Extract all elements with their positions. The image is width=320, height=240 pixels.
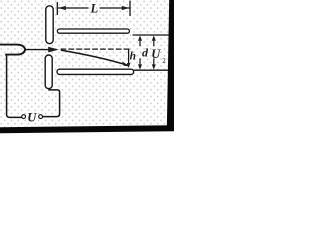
black border bar right <box>167 0 174 130</box>
dimension L line right segment <box>100 7 129 9</box>
dimension L left arrowhead <box>58 6 66 10</box>
dimension bottom tick line <box>134 69 171 71</box>
top deflection plate <box>57 29 129 33</box>
wire terminal to lower slit plate <box>43 90 60 117</box>
upper slit electrode plate <box>46 6 53 44</box>
dimension L line left segment <box>58 7 88 9</box>
terminal circle right <box>39 115 43 119</box>
U2 up arrow <box>153 39 155 46</box>
deflected trajectory <box>62 50 128 65</box>
h dimension arrow <box>128 49 130 64</box>
terminal circle left <box>22 115 26 119</box>
wire cathode to bottom left <box>6 55 22 118</box>
svg-text:U: U <box>27 110 37 124</box>
U2 down arrow <box>153 59 155 67</box>
black border bar bottom <box>0 125 174 133</box>
d up arrow <box>139 39 141 46</box>
trajectory arrowhead <box>122 62 130 67</box>
dimension L left tick bar <box>56 3 58 15</box>
d down arrow <box>139 59 141 67</box>
dimension top tick line <box>133 34 171 36</box>
svg-text:d: d <box>142 46 149 60</box>
beam arrowhead <box>48 47 59 53</box>
svg-text:U: U <box>151 47 161 61</box>
electron beam solid line <box>25 49 56 51</box>
dimension L right arrowhead <box>122 6 130 10</box>
svg-text:L: L <box>90 2 99 16</box>
halftone dot background <box>0 0 174 131</box>
beam axis dashed line <box>61 48 129 50</box>
svg-text:h: h <box>130 51 136 63</box>
bottom deflection plate <box>57 69 134 74</box>
svg-text:2: 2 <box>162 57 166 65</box>
cathode filament <box>0 45 25 55</box>
dimension L right tick bar <box>129 1 131 15</box>
lower slit electrode plate <box>45 55 52 89</box>
